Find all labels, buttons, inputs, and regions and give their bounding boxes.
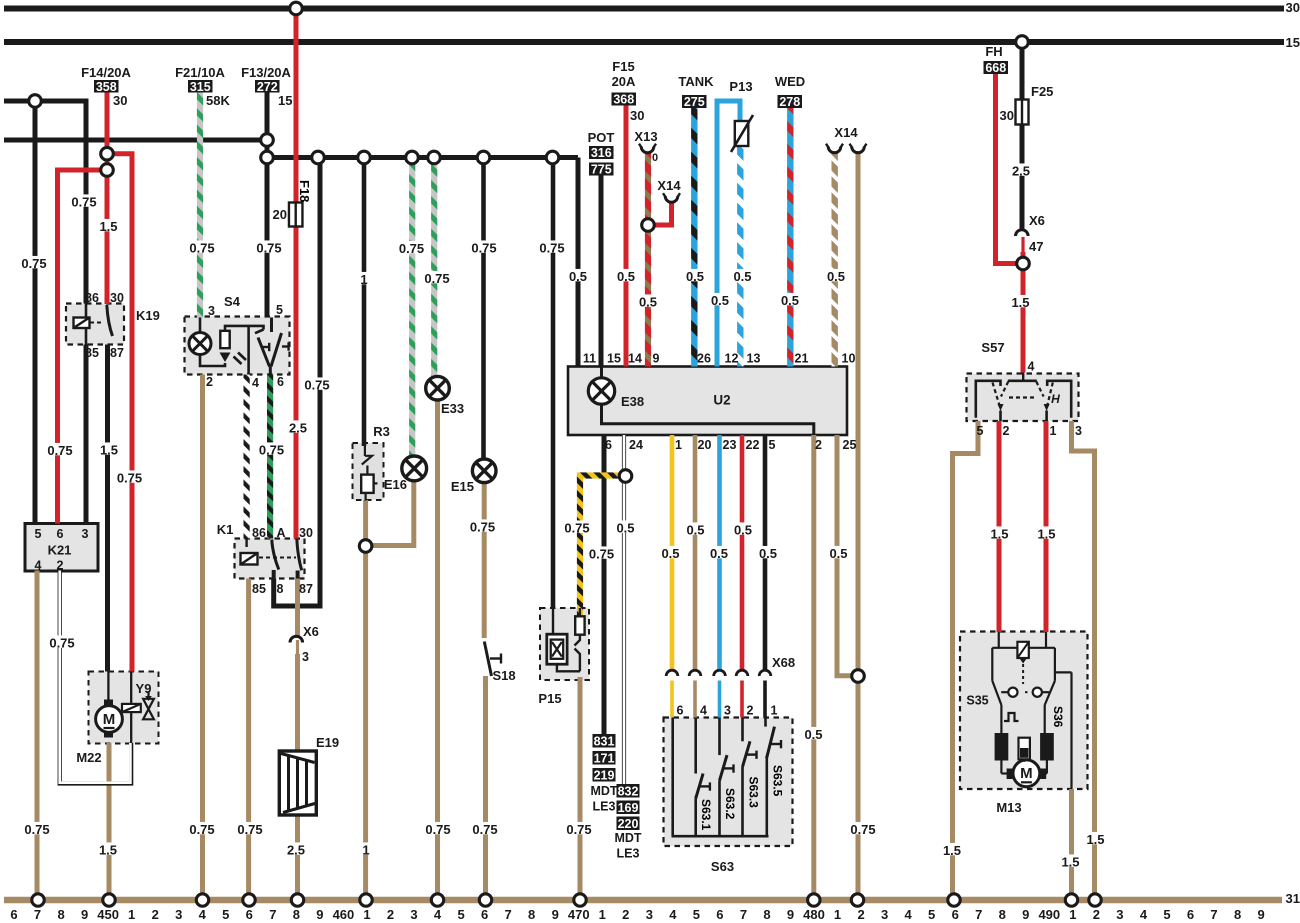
svg-text:F18: F18 bbox=[297, 180, 312, 202]
wire: F25 to X6 bbox=[1020, 42, 1025, 231]
svg-text:1.5: 1.5 bbox=[100, 443, 118, 458]
svg-text:2: 2 bbox=[622, 907, 629, 922]
switch S4 box bbox=[185, 317, 290, 375]
svg-text:9: 9 bbox=[552, 907, 559, 922]
svg-text:86: 86 bbox=[85, 291, 99, 305]
svg-text:0.75: 0.75 bbox=[566, 822, 591, 837]
horn E19 bbox=[279, 751, 316, 815]
wire size labels col1 bbox=[18, 256, 49, 268]
svg-text:F15: F15 bbox=[612, 59, 634, 74]
wire: X14 brown/white to U2 pin10 bbox=[832, 151, 838, 367]
svg-text:F13/20A: F13/20A bbox=[241, 65, 291, 80]
svg-text:0.5: 0.5 bbox=[661, 546, 679, 561]
svg-text:5: 5 bbox=[977, 424, 984, 438]
wire: drop to U2 pin11 bbox=[576, 158, 581, 367]
svg-text:K1: K1 bbox=[217, 522, 234, 537]
svg-text:E15: E15 bbox=[451, 479, 474, 494]
svg-text:30: 30 bbox=[1286, 0, 1300, 15]
svg-text:0.75: 0.75 bbox=[21, 256, 46, 271]
svg-text:2: 2 bbox=[857, 907, 864, 922]
svg-text:5: 5 bbox=[693, 907, 700, 922]
bus 30 bbox=[4, 6, 1284, 12]
fuse F25 bbox=[1016, 100, 1029, 125]
switch S63.5 bbox=[764, 718, 767, 727]
svg-text:7: 7 bbox=[975, 907, 982, 922]
svg-text:MDT: MDT bbox=[614, 831, 641, 845]
svg-text:F21/10A: F21/10A bbox=[175, 65, 225, 80]
svg-text:A: A bbox=[276, 526, 285, 540]
svg-text:R3: R3 bbox=[373, 424, 390, 439]
wire: drop to P15 left bbox=[551, 158, 556, 610]
svg-text:X6: X6 bbox=[1029, 213, 1045, 228]
svg-text:5: 5 bbox=[769, 438, 776, 452]
svg-text:0.5: 0.5 bbox=[711, 293, 729, 308]
svg-text:9: 9 bbox=[316, 907, 323, 922]
svg-text:1.5: 1.5 bbox=[943, 843, 961, 858]
svg-text:6: 6 bbox=[716, 907, 723, 922]
wire: R3 brown to ground bbox=[363, 500, 368, 900]
svg-text:2: 2 bbox=[1003, 424, 1010, 438]
svg-text:8: 8 bbox=[999, 907, 1006, 922]
svg-text:30: 30 bbox=[113, 93, 127, 108]
svg-text:1.5: 1.5 bbox=[99, 219, 117, 234]
svg-text:10: 10 bbox=[842, 352, 856, 366]
svg-text:86: 86 bbox=[252, 526, 266, 540]
wire: FH red to node bbox=[996, 74, 1024, 264]
svg-text:9: 9 bbox=[653, 352, 660, 366]
wire: drop to E15 bbox=[481, 158, 486, 460]
svg-text:1: 1 bbox=[771, 704, 778, 718]
svg-text:P15: P15 bbox=[538, 691, 561, 706]
svg-text:0.75: 0.75 bbox=[47, 443, 72, 458]
wire: S4 pin2 brown to ground bbox=[200, 375, 205, 901]
pump resistor R3 bbox=[364, 446, 366, 456]
svg-text:6: 6 bbox=[1187, 907, 1194, 922]
wire: X6 47 red to S57 pin4 bbox=[1021, 237, 1024, 254]
wire: WED blue/red to U2 pin21 bbox=[787, 107, 793, 367]
wire: P13 blue loop to U2 pin12 bbox=[717, 101, 740, 367]
svg-text:2: 2 bbox=[1093, 907, 1100, 922]
wire: TANK blue/black to U2 pin26 bbox=[691, 107, 697, 367]
sensor P13 variable resistor bbox=[735, 121, 749, 146]
svg-text:315: 315 bbox=[190, 80, 211, 94]
switch S4 led bbox=[220, 353, 231, 363]
svg-text:21: 21 bbox=[795, 352, 809, 366]
svg-text:1: 1 bbox=[675, 438, 682, 452]
connector X13 bbox=[641, 147, 654, 153]
lamp E15 bbox=[472, 459, 496, 483]
switch S4 lamp bbox=[199, 318, 202, 334]
svg-text:X13: X13 bbox=[634, 129, 657, 144]
svg-text:3: 3 bbox=[302, 650, 309, 664]
wire: fuse F14 red drop to K19 pin30 bbox=[105, 92, 110, 305]
svg-text:0.5: 0.5 bbox=[686, 269, 704, 284]
svg-text:0.75: 0.75 bbox=[425, 822, 450, 837]
svg-text:0.75: 0.75 bbox=[470, 520, 495, 535]
wiper motor M13 brushes bbox=[995, 733, 1009, 761]
svg-text:9: 9 bbox=[81, 907, 88, 922]
svg-text:8: 8 bbox=[763, 907, 770, 922]
svg-text:8: 8 bbox=[1234, 907, 1241, 922]
svg-text:87: 87 bbox=[299, 582, 313, 596]
wire: U2 pin5 to X68 bbox=[763, 435, 768, 672]
svg-text:3: 3 bbox=[646, 907, 653, 922]
svg-text:2: 2 bbox=[747, 704, 754, 718]
svg-text:0.75: 0.75 bbox=[472, 822, 497, 837]
svg-text:8: 8 bbox=[57, 907, 64, 922]
svg-text:S63.3: S63.3 bbox=[747, 777, 761, 809]
wire: POT to U2 pin15 bbox=[599, 174, 604, 367]
switch S4 pin4 internal wire bbox=[247, 326, 250, 375]
wire: F15 red to U2 pin14 bbox=[624, 106, 629, 367]
svg-text:0.5: 0.5 bbox=[639, 295, 657, 310]
svg-text:MDT: MDT bbox=[590, 784, 617, 798]
svg-text:6: 6 bbox=[277, 375, 284, 389]
svg-text:2: 2 bbox=[57, 559, 64, 573]
wire: yellow/black to P15 resistor bbox=[577, 473, 583, 617]
svg-text:E16: E16 bbox=[384, 477, 407, 492]
wire: left feed y=101 bbox=[4, 101, 86, 304]
svg-text:S57: S57 bbox=[981, 340, 1004, 355]
svg-text:X14: X14 bbox=[657, 178, 681, 193]
wire: green/silver to E33 bbox=[431, 158, 437, 378]
svg-text:4: 4 bbox=[1028, 360, 1035, 374]
svg-text:1.5: 1.5 bbox=[1086, 832, 1104, 847]
svg-text:7: 7 bbox=[34, 907, 41, 922]
wire: S4 pin6 green/black to K1 pinA bbox=[267, 375, 273, 539]
svg-text:TANK: TANK bbox=[678, 74, 714, 89]
svg-text:0.75: 0.75 bbox=[259, 443, 284, 458]
svg-text:5: 5 bbox=[35, 527, 42, 541]
svg-text:6: 6 bbox=[481, 907, 488, 922]
sensor P15 box bbox=[540, 608, 589, 680]
bus 31 ground bbox=[4, 897, 1282, 904]
wire: S4 pin4 black/white to K1 pin86 bbox=[244, 375, 250, 539]
svg-text:Y9: Y9 bbox=[136, 681, 152, 696]
svg-text:2: 2 bbox=[815, 438, 822, 452]
wiper motor M13 motor bbox=[1000, 761, 1002, 774]
switch S63.1 bbox=[694, 718, 697, 774]
svg-text:26: 26 bbox=[697, 352, 711, 366]
relay K1 contact 30-87 bbox=[297, 540, 302, 571]
svg-text:LE3: LE3 bbox=[593, 800, 616, 814]
svg-text:831: 831 bbox=[594, 734, 615, 748]
svg-text:9: 9 bbox=[1022, 907, 1029, 922]
wire: drop to R3 bbox=[362, 158, 367, 447]
svg-text:1: 1 bbox=[834, 907, 841, 922]
lamp E38 internal wiring bbox=[600, 367, 603, 379]
svg-text:S63.2: S63.2 bbox=[723, 788, 737, 820]
svg-text:E38: E38 bbox=[621, 394, 644, 409]
wiper motor M13 cam bbox=[1000, 705, 1002, 733]
connector X68 bbox=[666, 670, 678, 676]
svg-text:171: 171 bbox=[594, 751, 615, 765]
svg-text:4: 4 bbox=[35, 559, 42, 573]
switch S18 bbox=[484, 642, 491, 677]
svg-text:M22: M22 bbox=[76, 750, 101, 765]
fuse F18 bbox=[289, 203, 303, 227]
svg-text:0.75: 0.75 bbox=[539, 241, 564, 256]
svg-text:480: 480 bbox=[803, 907, 825, 922]
svg-text:490: 490 bbox=[1038, 907, 1060, 922]
connector X6 47 bbox=[1015, 230, 1028, 236]
motor M22 bbox=[107, 672, 109, 701]
svg-text:1: 1 bbox=[128, 907, 135, 922]
wire: X6 3 brown through E19 to ground bbox=[296, 640, 299, 656]
svg-text:0.5: 0.5 bbox=[617, 269, 635, 284]
svg-text:24: 24 bbox=[629, 438, 643, 452]
svg-text:6: 6 bbox=[605, 438, 612, 452]
connector X14 pins bbox=[828, 147, 841, 153]
svg-text:2.5: 2.5 bbox=[289, 421, 307, 436]
svg-text:13: 13 bbox=[747, 352, 761, 366]
svg-text:S63: S63 bbox=[711, 859, 734, 874]
svg-text:1: 1 bbox=[363, 907, 370, 922]
lamp labels bbox=[396, 241, 427, 253]
sensor P15 resistor bbox=[579, 608, 581, 616]
svg-text:6: 6 bbox=[952, 907, 959, 922]
svg-text:368: 368 bbox=[613, 93, 634, 107]
svg-text:1.5: 1.5 bbox=[990, 527, 1008, 542]
svg-text:3: 3 bbox=[1075, 424, 1082, 438]
switch S57 internals bbox=[1022, 373, 1024, 382]
svg-text:0.5: 0.5 bbox=[781, 293, 799, 308]
svg-text:6: 6 bbox=[57, 527, 64, 541]
lamp E38 bbox=[588, 378, 614, 404]
svg-text:7: 7 bbox=[505, 907, 512, 922]
svg-text:0.75: 0.75 bbox=[24, 822, 49, 837]
wire: K19 pin85 bbox=[84, 345, 89, 524]
svg-text:4: 4 bbox=[252, 376, 259, 390]
svg-text:P13: P13 bbox=[729, 79, 752, 94]
svg-text:8: 8 bbox=[293, 907, 300, 922]
svg-text:U2: U2 bbox=[713, 393, 730, 408]
svg-text:0.75: 0.75 bbox=[256, 241, 281, 256]
svg-text:M13: M13 bbox=[996, 800, 1021, 815]
wiper motor M13 thermal bbox=[1019, 738, 1030, 760]
lamp E16 bbox=[402, 456, 427, 481]
wiper motor M13 solenoid bbox=[1017, 642, 1028, 658]
svg-text:272: 272 bbox=[257, 80, 278, 94]
svg-text:668: 668 bbox=[985, 61, 1006, 75]
svg-text:6: 6 bbox=[246, 907, 253, 922]
svg-text:X14: X14 bbox=[834, 125, 858, 140]
svg-text:20A: 20A bbox=[612, 74, 636, 89]
svg-text:FH: FH bbox=[985, 44, 1002, 59]
control unit U2 box bbox=[568, 367, 847, 436]
svg-text:1: 1 bbox=[1069, 907, 1076, 922]
svg-text:2.5: 2.5 bbox=[287, 843, 305, 858]
svg-text:0.75: 0.75 bbox=[237, 822, 262, 837]
svg-text:1.5: 1.5 bbox=[99, 843, 117, 858]
wire: K1 pin87 brown to X6 bbox=[295, 579, 300, 639]
svg-text:1: 1 bbox=[1050, 424, 1057, 438]
svg-text:1.5: 1.5 bbox=[1061, 855, 1079, 870]
svg-text:0.75: 0.75 bbox=[471, 241, 496, 256]
wire: K21 pin4 brown to ground bbox=[35, 571, 40, 901]
relay K1 coil bbox=[245, 539, 247, 548]
wire: X13 red/brown to U2 pin9 bbox=[645, 152, 651, 367]
svg-text:775: 775 bbox=[591, 163, 612, 177]
svg-text:5: 5 bbox=[928, 907, 935, 922]
wire: red branch to Y9 bbox=[107, 154, 132, 672]
switch S63 internals bbox=[671, 718, 674, 837]
wiper motor M13 box bbox=[960, 632, 1088, 790]
switch S57 box bbox=[967, 374, 1079, 422]
svg-text:1.5: 1.5 bbox=[1037, 527, 1055, 542]
svg-text:K21: K21 bbox=[48, 543, 72, 558]
svg-text:316: 316 bbox=[591, 146, 612, 160]
svg-text:31: 31 bbox=[1286, 891, 1300, 906]
svg-text:3: 3 bbox=[881, 907, 888, 922]
svg-text:3: 3 bbox=[410, 907, 417, 922]
svg-text:25: 25 bbox=[843, 438, 857, 452]
svg-text:X68: X68 bbox=[772, 655, 795, 670]
svg-text:F14/20A: F14/20A bbox=[81, 65, 131, 80]
relay K1 contact A-8 bbox=[272, 540, 279, 570]
svg-text:22: 22 bbox=[746, 438, 760, 452]
wire: U2 pin6 to code 831 bbox=[602, 435, 607, 735]
svg-text:2: 2 bbox=[387, 907, 394, 922]
svg-text:1: 1 bbox=[360, 272, 367, 287]
wire: P13 blue/white to U2 pin13 bbox=[737, 146, 743, 367]
svg-text:S36: S36 bbox=[1051, 706, 1065, 728]
svg-text:M: M bbox=[103, 711, 116, 728]
wiper motor M13 park switch bbox=[991, 648, 993, 681]
wire: green/silver to E16 bbox=[409, 158, 415, 457]
svg-text:7: 7 bbox=[740, 907, 747, 922]
wire: U2 pin24 white to code 832 bbox=[622, 435, 626, 785]
svg-text:8: 8 bbox=[528, 907, 535, 922]
svg-text:169: 169 bbox=[618, 801, 639, 815]
svg-text:275: 275 bbox=[684, 95, 705, 109]
wire: E15 brown to S18 bbox=[482, 483, 487, 639]
svg-text:M: M bbox=[1020, 765, 1033, 782]
svg-text:3: 3 bbox=[175, 907, 182, 922]
svg-text:85: 85 bbox=[85, 346, 99, 360]
svg-text:S4: S4 bbox=[224, 294, 241, 309]
svg-text:5: 5 bbox=[1163, 907, 1170, 922]
svg-text:2.5: 2.5 bbox=[1012, 164, 1030, 179]
relay K19 coil bbox=[85, 304, 88, 318]
wire: F21 58K green/silver to S4 pin3 bbox=[197, 92, 203, 318]
svg-text:358: 358 bbox=[96, 80, 117, 94]
lamp E33 bbox=[426, 376, 450, 400]
sensor P15 gauge symbol bbox=[552, 609, 554, 635]
wire: X68 to S63 pin1 bbox=[763, 681, 767, 718]
wire: F18 red drop bus30 to K1 pin30 bbox=[294, 9, 299, 539]
bus 15 bbox=[4, 39, 1284, 45]
wire: U2 pin23 blue to S63 pin3 bbox=[717, 435, 722, 672]
svg-text:4: 4 bbox=[700, 704, 707, 718]
svg-text:1: 1 bbox=[599, 907, 606, 922]
wiper motor M13 ground link bbox=[1055, 671, 1072, 673]
svg-text:0.5: 0.5 bbox=[804, 727, 822, 742]
wire: S57 pin1 red to M13 bbox=[1044, 421, 1049, 632]
R3 labels bbox=[359, 272, 368, 284]
svg-text:WED: WED bbox=[775, 74, 805, 89]
wire: U2 pin20 brown to S63 pin4 bbox=[693, 435, 698, 672]
svg-text:0.5: 0.5 bbox=[686, 523, 704, 538]
wire: drop x=320 to K1 pin8 link bbox=[274, 158, 320, 607]
svg-text:S63.1: S63.1 bbox=[699, 799, 713, 831]
svg-text:4: 4 bbox=[1140, 907, 1148, 922]
relay K19 link bbox=[90, 322, 104, 324]
svg-text:14: 14 bbox=[628, 352, 642, 366]
valve Y9 bbox=[147, 691, 149, 698]
svg-text:0.75: 0.75 bbox=[117, 471, 142, 486]
svg-text:9: 9 bbox=[787, 907, 794, 922]
switch S63.2 bbox=[718, 718, 721, 756]
svg-text:1: 1 bbox=[362, 843, 369, 858]
wire: distribution line y=157.5 bbox=[267, 155, 578, 160]
svg-text:0.75: 0.75 bbox=[424, 271, 449, 286]
svg-text:58K: 58K bbox=[206, 93, 230, 108]
wire: M22 brown to ground bbox=[107, 743, 112, 900]
svg-text:278: 278 bbox=[779, 95, 800, 109]
svg-text:4: 4 bbox=[434, 907, 442, 922]
svg-text:30: 30 bbox=[299, 526, 313, 540]
wire: U2 pin22 red to S63 pin2 bbox=[740, 435, 745, 672]
ground nodes bbox=[32, 894, 44, 906]
junction nodes bbox=[290, 2, 303, 15]
svg-text:F25: F25 bbox=[1031, 84, 1053, 99]
svg-text:0.75: 0.75 bbox=[589, 547, 614, 562]
svg-text:H: H bbox=[1051, 392, 1060, 406]
svg-text:K19: K19 bbox=[136, 308, 160, 323]
wire: S18 brown to ground bbox=[483, 676, 488, 900]
svg-text:POT: POT bbox=[588, 130, 615, 145]
U2 wire labels bbox=[536, 240, 567, 252]
svg-text:11: 11 bbox=[583, 352, 596, 366]
svg-text:X6: X6 bbox=[303, 624, 319, 639]
svg-text:4: 4 bbox=[905, 907, 913, 922]
svg-text:8: 8 bbox=[277, 582, 284, 596]
svg-text:LE3: LE3 bbox=[617, 847, 640, 861]
svg-text:0.75: 0.75 bbox=[49, 636, 74, 651]
svg-text:1.5: 1.5 bbox=[1011, 295, 1029, 310]
switch S4 contact blades bbox=[270, 318, 273, 333]
svg-text:15: 15 bbox=[278, 93, 292, 108]
svg-text:6: 6 bbox=[10, 907, 17, 922]
switch S4 led resistor bbox=[220, 331, 229, 348]
svg-text:219: 219 bbox=[594, 768, 615, 782]
svg-text:E19: E19 bbox=[316, 735, 339, 750]
svg-text:7: 7 bbox=[1210, 907, 1217, 922]
svg-text:0.5: 0.5 bbox=[827, 269, 845, 284]
pump relay R3 box bbox=[353, 443, 384, 500]
wire: F13/20A drop to S4 pin5 bbox=[265, 92, 270, 318]
svg-text:0.75: 0.75 bbox=[304, 378, 329, 393]
svg-text:20: 20 bbox=[273, 207, 287, 222]
wire: P15 brown to ground bbox=[578, 677, 583, 900]
wire: U2 pin25 brown to X14 node bbox=[837, 435, 858, 676]
svg-text:0.75: 0.75 bbox=[71, 195, 96, 210]
svg-text:5: 5 bbox=[276, 303, 283, 317]
svg-text:0.75: 0.75 bbox=[399, 241, 424, 256]
svg-text:30: 30 bbox=[110, 291, 124, 305]
svg-text:0.75: 0.75 bbox=[189, 822, 214, 837]
svg-text:460: 460 bbox=[333, 907, 355, 922]
valve M22/Y9 box bbox=[89, 672, 159, 744]
wire: E16 brown to R3 node bbox=[366, 481, 414, 546]
svg-text:0.5: 0.5 bbox=[616, 521, 634, 536]
svg-text:5: 5 bbox=[222, 907, 229, 922]
svg-text:3: 3 bbox=[208, 304, 215, 318]
svg-text:832: 832 bbox=[618, 784, 639, 798]
wire: K1 pin85 brown to ground bbox=[246, 579, 251, 901]
svg-text:9: 9 bbox=[1257, 907, 1264, 922]
